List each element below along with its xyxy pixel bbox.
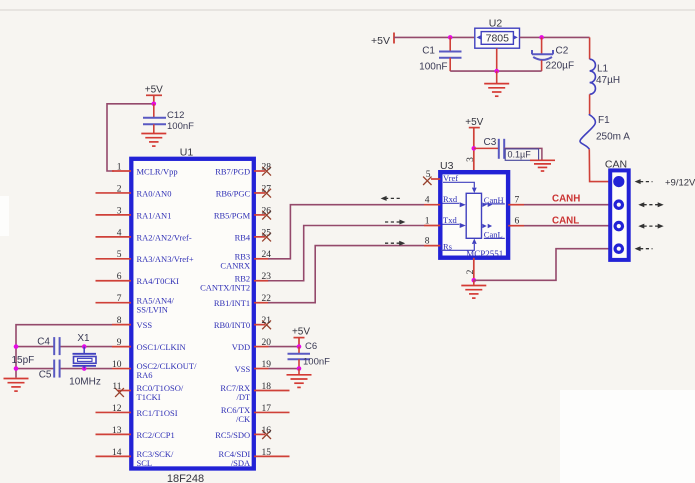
pin 1 Txd [424, 225, 440, 227]
wire RB2/CANTX pin23 to U3 Txd [268, 226, 424, 281]
pin 5 Vref [431, 178, 440, 180]
svg-text:/CK: /CK [236, 414, 251, 424]
pin 19 VSS [235, 360, 272, 374]
svg-text:CANL: CANL [552, 216, 579, 227]
pin 6 RA4/T0CKI [96, 272, 180, 286]
svg-text:/DT: /DT [236, 392, 251, 402]
pin 8 Rs [424, 245, 440, 247]
pin 4 Rxd [424, 204, 440, 206]
pin 14 RC3/SCK//SCL [96, 448, 174, 468]
pin 20 VDD [232, 338, 271, 352]
svg-text:8: 8 [117, 316, 122, 326]
svg-text:OSC1/CLKIN: OSC1/CLKIN [137, 342, 186, 352]
node U3 ground junction [472, 278, 477, 283]
wire ground rail under U2 [450, 70, 541, 72]
svg-text:1: 1 [117, 162, 122, 172]
svg-text:RB1/INT1: RB1/INT1 [214, 298, 250, 308]
arrow CANL bidirectional [644, 225, 659, 227]
ground (C6) [298, 369, 300, 374]
svg-text:+5V: +5V [292, 327, 310, 338]
svg-text:4: 4 [425, 196, 430, 206]
arrow Rs direction (right) [385, 242, 400, 244]
pin 8 VSS [112, 316, 152, 330]
capacitor C1 [449, 37, 451, 51]
pin 5 RA3/AN3/Vref+ [96, 250, 194, 264]
svg-text:3: 3 [466, 157, 476, 162]
pin 21 RB0/INT0 [214, 316, 271, 330]
wire pin 20 VDD [269, 346, 300, 348]
svg-text:17: 17 [262, 404, 272, 414]
pin 7 RA5/AN4//SS/LVIN [96, 294, 175, 314]
node +5V/C12 junction [152, 102, 157, 107]
op IC U1 body 18F248 [131, 159, 254, 469]
node regulator ground junction [494, 69, 499, 74]
pin 22 RB1/INT1 [214, 294, 271, 308]
svg-text:6: 6 [117, 272, 122, 282]
arrow supply in (left) [640, 181, 653, 183]
capacitor C6 [298, 347, 300, 354]
wire RB3/CANRX pin24 to U3 Rxd [268, 205, 424, 259]
wire VSS pin 8 to ground rail [16, 325, 112, 378]
svg-text:CAN: CAN [605, 159, 627, 171]
pin 15 RC4/SDI//SDA [219, 448, 290, 468]
svg-text:RA3/AN3/Vref+: RA3/AN3/Vref+ [137, 254, 194, 264]
svg-text:250m A: 250m A [596, 132, 630, 143]
inductor L1 [590, 59, 596, 94]
svg-text:L1: L1 [597, 64, 609, 75]
wire U3 VSS to CAN pin 4 [474, 249, 610, 281]
svg-text:RB4: RB4 [235, 232, 251, 242]
svg-text:C12: C12 [167, 110, 184, 121]
U3 internal block [466, 193, 481, 238]
pin 24 RB3/CANRX [220, 250, 271, 270]
pin 26 RB5/PGM [214, 206, 271, 220]
Txd internal lead [443, 223, 460, 225]
svg-text:14: 14 [112, 448, 122, 458]
svg-text:CANRX: CANRX [220, 260, 250, 270]
svg-text:5: 5 [117, 250, 122, 260]
wire pin 19 VSS [269, 368, 300, 370]
ground (U2) [496, 71, 498, 83]
pin 9 OSC1/CLKIN [112, 338, 186, 352]
svg-text:100nF: 100nF [419, 62, 447, 73]
svg-text:U3: U3 [440, 160, 454, 172]
pin 27 RB6/PGC [216, 184, 272, 198]
wire U2 to L1 [589, 37, 591, 59]
wire C3 to ground [504, 148, 542, 159]
pin 10 OSC2/CLKOUT//RA6 [112, 360, 197, 380]
ground (U3) [473, 280, 475, 285]
arrow ground return (left) [640, 248, 653, 250]
svg-text:RA4/T0CKI: RA4/T0CKI [137, 276, 180, 286]
svg-text:CANH: CANH [552, 194, 580, 205]
svg-text:+5V: +5V [145, 85, 163, 96]
crystal X1 [83, 347, 85, 354]
svg-text:7: 7 [117, 294, 122, 304]
svg-text:10: 10 [112, 360, 122, 370]
svg-text:RB7/PGD: RB7/PGD [215, 166, 250, 176]
transceiver IC U3 body MCP2551 [440, 172, 508, 258]
svg-text:+9/12V: +9/12V [665, 177, 695, 188]
pin 25 RB4 [235, 228, 272, 242]
svg-text:RB0/INT0: RB0/INT0 [214, 320, 250, 330]
svg-text:T1CKI: T1CKI [137, 392, 161, 402]
svg-text:Vref: Vref [443, 173, 458, 183]
svg-text:C1: C1 [422, 46, 435, 57]
svg-text:27: 27 [262, 184, 272, 194]
svg-text:25: 25 [262, 228, 272, 238]
svg-text:7805: 7805 [486, 33, 510, 45]
Rxd internal lead [443, 202, 460, 204]
capacitor C3 [474, 147, 499, 149]
node C3 junction [472, 146, 477, 151]
svg-text:C5: C5 [39, 370, 52, 381]
svg-text:15pF: 15pF [12, 355, 35, 366]
pin 1 MCLR/Vpp [112, 162, 178, 176]
wire L1 to F1 [589, 94, 591, 114]
svg-text:10MHz: 10MHz [69, 377, 101, 388]
svg-text:RC2/CCP1: RC2/CCP1 [137, 430, 175, 440]
node C2 junction [539, 35, 544, 40]
pin 2 (U3 VSS) [473, 258, 475, 281]
node OSC1 junctions [14, 344, 19, 349]
svg-text:/SDA: /SDA [231, 458, 251, 468]
svg-text:47µH: 47µH [596, 75, 620, 86]
svg-text:VDD: VDD [232, 342, 250, 352]
svg-text:4: 4 [117, 228, 122, 238]
wire U2 out to L1 [520, 36, 542, 38]
svg-text:CANTX/INT2: CANTX/INT2 [200, 282, 250, 292]
svg-text:220µF: 220µF [546, 61, 575, 72]
capacitor C4 [53, 337, 55, 355]
capacitor C2 (polarized) [541, 37, 543, 54]
svg-text:2: 2 [466, 269, 476, 274]
fuse F1 [580, 114, 595, 149]
pin 4 RA2/AN2/Vref- [96, 228, 192, 242]
node OSC2 junctions [14, 366, 19, 371]
ground (C12) [141, 133, 166, 135]
node C1 junction [448, 35, 453, 40]
connector CAN body [610, 170, 629, 260]
pin 28 RB7/PGD [215, 162, 271, 176]
svg-text:9: 9 [117, 338, 122, 348]
svg-text:5: 5 [426, 170, 431, 180]
wire net CANL [524, 225, 610, 227]
ground (crystal) [4, 378, 29, 380]
svg-text:18F248: 18F248 [167, 473, 204, 483]
svg-text:8: 8 [425, 237, 430, 247]
svg-text:C4: C4 [37, 337, 50, 348]
arrow Rxd direction (left) [385, 197, 401, 199]
svg-text:16: 16 [262, 426, 272, 436]
svg-text:RA0/AN0: RA0/AN0 [137, 188, 172, 198]
svg-text:7: 7 [515, 196, 520, 206]
svg-text:6: 6 [515, 217, 520, 227]
wire F1 to CAN pin1 [589, 149, 610, 181]
capacitor C5 [53, 360, 55, 378]
svg-text:12: 12 [112, 404, 122, 414]
svg-text:MCLR/Vpp: MCLR/Vpp [137, 166, 178, 176]
capacitor C12 [153, 104, 155, 118]
label 0.1µF (boxed) [505, 149, 538, 160]
pin 23 RB2/CANTX/INT2 [200, 272, 271, 292]
regulator ground pin [496, 48, 498, 71]
connector pin 2 [614, 199, 625, 210]
Vref internal lead [443, 182, 474, 187]
svg-text:U2: U2 [489, 18, 503, 30]
svg-text:100nF: 100nF [167, 121, 194, 132]
pin 3 RA1/AN1 [96, 206, 172, 220]
svg-text:RA6: RA6 [137, 370, 153, 380]
wire RB1 pin22 to U3 Rs [268, 246, 424, 303]
svg-text:U1: U1 [180, 147, 194, 159]
pin 2 RA0/AN0 [96, 184, 172, 198]
wire +5V rail to U2 [394, 36, 450, 38]
svg-text:C3: C3 [484, 137, 497, 148]
ground (C3) [530, 159, 555, 161]
svg-text:26: 26 [262, 206, 272, 216]
svg-text:21: 21 [262, 316, 272, 326]
pin 17 RC6/TX//CK [221, 404, 290, 424]
svg-text:13: 13 [112, 426, 122, 436]
node VDD junction [297, 344, 302, 349]
svg-text:X1: X1 [77, 333, 90, 344]
arrow Txd direction (right) [385, 221, 400, 223]
connector pin 1 [613, 176, 624, 187]
pin 16 RC5/SDO [215, 426, 271, 440]
Rs internal lead [441, 244, 474, 250]
wire pin 9 OSC1 net [61, 346, 113, 348]
svg-text:RA1/AN1: RA1/AN1 [137, 210, 172, 220]
connector pin 4 [614, 243, 625, 254]
svg-text:VSS: VSS [235, 364, 251, 374]
svg-text:C6: C6 [305, 341, 317, 352]
pin 12 RC1/T1OSI [96, 404, 178, 418]
svg-text:100nF: 100nF [303, 357, 330, 368]
svg-text:RC1/T1OSI: RC1/T1OSI [137, 408, 178, 418]
connector pin 3 [614, 221, 625, 232]
svg-text:3: 3 [117, 206, 122, 216]
pin 11 RC0/T1OSO//T1CKI [112, 382, 184, 402]
wire net CANH [524, 204, 610, 206]
svg-text:F1: F1 [598, 115, 610, 126]
svg-text:15: 15 [262, 448, 272, 458]
svg-text:RB6/PGC: RB6/PGC [216, 188, 251, 198]
svg-text:RA2/AN2/Vref-: RA2/AN2/Vref- [137, 232, 192, 242]
svg-text:VSS: VSS [137, 320, 153, 330]
wire +5V to pin 1 MCLR [107, 104, 154, 171]
wire pin 10 OSC2 net [61, 368, 113, 370]
svg-text:11: 11 [112, 382, 121, 392]
svg-text:0.1µF: 0.1µF [508, 150, 532, 160]
svg-text:28: 28 [262, 162, 272, 172]
svg-text:+5V: +5V [371, 35, 390, 47]
regulator U2 7805 [475, 28, 520, 48]
pin 18 RC7/RX//DT [220, 382, 289, 402]
svg-text:SCL: SCL [137, 458, 153, 468]
pin 13 RC2/CCP1 [96, 426, 175, 440]
scan artifact top line [0, 9, 695, 11]
svg-text:RC5/SDO: RC5/SDO [215, 430, 250, 440]
svg-text:1: 1 [425, 216, 430, 226]
svg-text:+5V: +5V [465, 117, 483, 128]
svg-text:RB5/PGM: RB5/PGM [214, 210, 251, 220]
svg-text:2: 2 [117, 184, 122, 194]
svg-text:SS/LVIN: SS/LVIN [137, 304, 168, 314]
svg-text:C2: C2 [556, 46, 569, 57]
svg-text:18: 18 [262, 382, 272, 392]
node VSS junction [297, 366, 302, 371]
arrow CANH bidirectional [644, 204, 659, 206]
